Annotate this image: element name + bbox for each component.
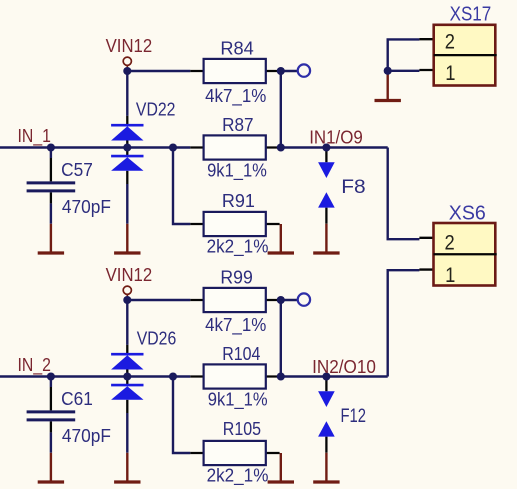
- svg-text:F12: F12: [340, 405, 366, 426]
- svg-text:R91: R91: [222, 190, 255, 211]
- svg-text:1: 1: [445, 264, 455, 288]
- svg-text:R104: R104: [222, 343, 261, 364]
- svg-text:2: 2: [445, 30, 455, 54]
- svg-text:IN_1: IN_1: [18, 125, 51, 147]
- svg-text:IN1/O9: IN1/O9: [309, 127, 363, 148]
- svg-text:R87: R87: [222, 114, 253, 135]
- svg-text:470pF: 470pF: [62, 426, 111, 447]
- svg-text:2k2_1%: 2k2_1%: [207, 465, 269, 487]
- svg-text:470pF: 470pF: [62, 197, 111, 218]
- svg-text:IN_2: IN_2: [18, 354, 51, 376]
- svg-text:IN2/O10: IN2/O10: [312, 356, 376, 377]
- svg-text:R84: R84: [220, 37, 253, 58]
- svg-text:9k1_1%: 9k1_1%: [208, 389, 268, 411]
- svg-text:VIN12: VIN12: [106, 35, 153, 56]
- svg-text:XS6: XS6: [449, 202, 486, 224]
- svg-text:C61: C61: [61, 388, 93, 409]
- svg-text:F8: F8: [341, 177, 365, 198]
- svg-text:2: 2: [445, 231, 455, 255]
- svg-text:1: 1: [445, 62, 455, 86]
- svg-text:R99: R99: [220, 267, 252, 288]
- svg-text:VIN12: VIN12: [106, 264, 153, 285]
- svg-text:9k1_1%: 9k1_1%: [207, 160, 267, 182]
- svg-text:VD26: VD26: [137, 327, 177, 349]
- svg-text:VD22: VD22: [136, 98, 176, 120]
- svg-text:4k7_1%: 4k7_1%: [205, 314, 266, 336]
- svg-text:R105: R105: [223, 418, 261, 439]
- svg-text:XS17: XS17: [450, 2, 492, 25]
- svg-text:C57: C57: [61, 159, 93, 180]
- svg-text:2k2_1%: 2k2_1%: [207, 236, 269, 258]
- svg-text:4k7_1%: 4k7_1%: [205, 85, 266, 107]
